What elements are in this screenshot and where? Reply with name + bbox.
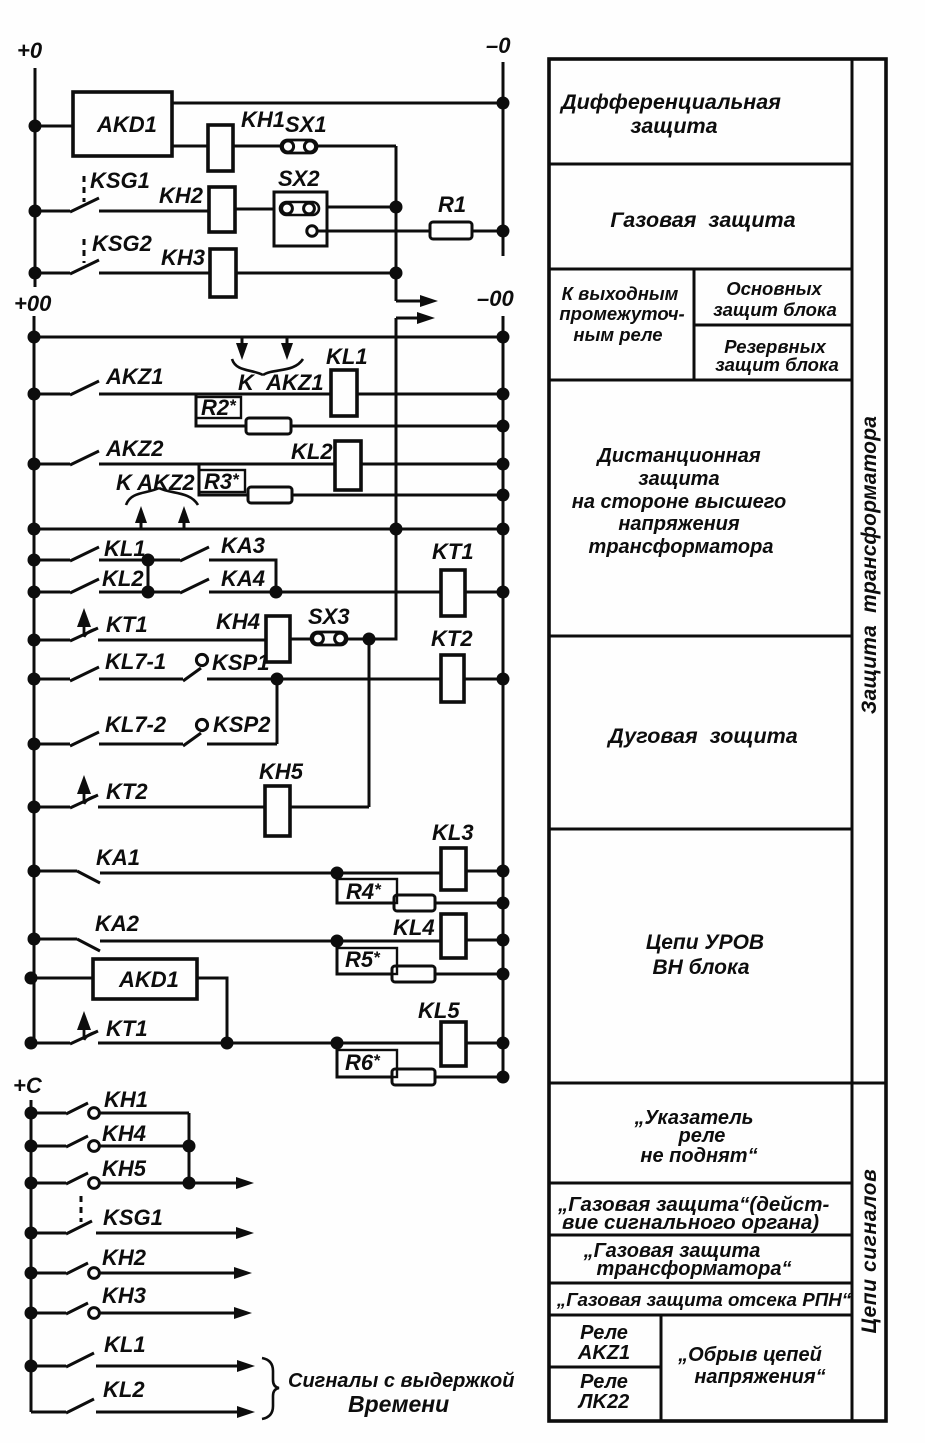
node AKD1 second on bus	[26, 973, 36, 983]
wire R5 to -00 bus	[435, 973, 503, 976]
svg-text:KH1: KH1	[241, 107, 285, 132]
wire KH3 row with KSG2 contact blade	[35, 260, 210, 274]
arrow to output relays 2	[396, 317, 421, 320]
node SX3 branch	[364, 634, 374, 644]
wire tie KH1-KH5	[188, 1113, 191, 1183]
coil KT2	[441, 655, 464, 702]
svg-text:реле: реле	[678, 1125, 726, 1147]
wire tie between KL1 and KL2 rows	[147, 560, 150, 592]
wire R6 to -00 bus end	[435, 1076, 503, 1079]
wire KSG1 signal row with blade	[31, 1221, 240, 1234]
svg-text:+C: +C	[13, 1073, 43, 1098]
node KH1 signal on bus	[26, 1108, 36, 1118]
node R4 on -00 bus	[498, 898, 508, 908]
wire lower rail to K AKZ2	[34, 528, 503, 531]
wire KT1 contact row	[34, 628, 266, 641]
wire KL1 to -00 bus	[357, 393, 503, 396]
node KT2 on -00 bus	[498, 674, 508, 684]
node SX2/SX1 junction	[391, 202, 401, 212]
wire KT2 coil to -00 bus	[464, 678, 503, 681]
time-contact symbol KT2	[84, 787, 96, 804]
label-box R6*	[337, 1050, 397, 1077]
node KT1 on -00 bus	[498, 587, 508, 597]
node tie KL1-KL2 top	[143, 555, 153, 565]
wire KT2 contact row	[34, 795, 265, 808]
arrow to output relays 1	[396, 300, 424, 303]
node KH2 row on bus	[30, 206, 40, 216]
svg-text:Основных: Основных	[726, 278, 822, 299]
svg-text:защит блока: защит блока	[715, 354, 839, 375]
coil KL1	[331, 370, 357, 416]
svg-text:R6*: R6*	[345, 1050, 381, 1075]
svg-text:KL2: KL2	[103, 1377, 145, 1402]
svg-text:AKZ2: AKZ2	[105, 436, 164, 461]
wire AKZ1 row with contact blade	[34, 381, 330, 395]
contact-circle KH3	[89, 1308, 100, 1319]
svg-text:вие сигнального органа): вие сигнального органа)	[562, 1211, 819, 1234]
node AKD1 output junction	[222, 1038, 232, 1048]
svg-text:KT1: KT1	[106, 1016, 148, 1041]
svg-text:напряжения“: напряжения“	[694, 1366, 825, 1388]
svg-text:Дистанционная: Дистанционная	[595, 445, 760, 467]
coil KL4	[441, 914, 466, 958]
node KH3 signal on bus	[26, 1308, 36, 1318]
node KL1 row on bus	[29, 555, 39, 565]
node KL2 on -00 bus	[498, 459, 508, 469]
table row line distance/arc	[549, 635, 852, 638]
node R3 on -00 bus	[498, 490, 508, 500]
coil KL5	[441, 1022, 466, 1066]
arrow down to K AKZ1 b	[286, 338, 289, 347]
wire AKD1 second output drop	[197, 978, 227, 1043]
wire KH2 row with KSG1 contact blade	[35, 198, 209, 212]
label-box R5*	[337, 948, 397, 974]
svg-text:Дифференциальная: Дифференциальная	[559, 90, 781, 114]
node R5 on -00 bus	[498, 969, 508, 979]
node KA3/KA4 join	[271, 587, 281, 597]
svg-text:KA3: KA3	[221, 533, 265, 558]
svg-text:KL2: KL2	[102, 566, 144, 591]
wire KH1 signal row with contact	[31, 1103, 189, 1114]
coil KH1	[208, 125, 233, 171]
wire SX1 to vertical node	[317, 145, 396, 148]
wire R3 to -00 bus	[292, 494, 503, 497]
svg-text:KL1: KL1	[104, 1332, 146, 1357]
svg-text:К выходным: К выходным	[562, 283, 679, 304]
arrow down to K AKZ1 a	[241, 338, 244, 347]
jumper SX3	[311, 632, 347, 645]
svg-text:промежуточ-: промежуточ-	[559, 303, 684, 324]
svg-text:KH3: KH3	[161, 245, 205, 270]
svg-text:R5*: R5*	[345, 947, 381, 972]
svg-text:ЛK22: ЛK22	[577, 1391, 629, 1413]
svg-text:R4*: R4*	[346, 879, 382, 904]
arrowhead KSG1 signal	[236, 1227, 254, 1239]
svg-text:KH1: KH1	[104, 1087, 148, 1112]
brace over arrows K AKZ2	[126, 488, 198, 505]
node rail right	[498, 332, 508, 342]
wire KH4 to SX3	[290, 638, 311, 641]
arrow up from rail to K AKZ2 a	[140, 520, 143, 528]
node KA2 on bus	[29, 934, 39, 944]
node on +0 bus at AKD1	[30, 121, 40, 131]
node KA2 R5 branch	[332, 936, 342, 946]
brace time-delayed signals	[262, 1358, 279, 1419]
bus +00	[33, 316, 36, 1043]
contact KSG1 (dashed actuator)	[83, 176, 86, 202]
wire KH5 signal row with contact	[31, 1173, 240, 1184]
node KL1 signal on bus	[26, 1361, 36, 1371]
svg-text:KT2: KT2	[431, 626, 473, 651]
svg-text:KSG1: KSG1	[90, 168, 150, 193]
node AKZ2 on bus	[29, 459, 39, 469]
svg-text:KSP2: KSP2	[213, 712, 271, 737]
bus -00	[502, 316, 505, 1078]
svg-text:„Обрыв цепей: „Обрыв цепей	[677, 1344, 822, 1366]
pressure-switch KSP1	[196, 654, 207, 665]
wire KL2/KA4 row with contact blades	[34, 579, 441, 593]
contact-circle KH5	[89, 1178, 100, 1189]
table row line gas/output-relays	[549, 268, 852, 271]
wire AKD1 to KH1	[172, 145, 208, 148]
node KL1 on -00 bus	[498, 389, 508, 399]
svg-text:KH5: KH5	[102, 1156, 147, 1181]
resistor R5	[392, 966, 435, 982]
svg-text:Сигналы с выдержкой: Сигналы с выдержкой	[288, 1370, 514, 1392]
svg-text:KSG1: KSG1	[103, 1205, 163, 1230]
wire KL3 to -00 bus	[466, 870, 503, 873]
svg-text:SX3: SX3	[308, 604, 350, 629]
svg-text:KSP1: KSP1	[212, 650, 269, 675]
wire KL5 to -00 bus	[466, 1042, 503, 1045]
node KSP1 tie	[272, 674, 282, 684]
arrowhead KL2 signal	[237, 1406, 255, 1418]
svg-text:K AKZ1: K AKZ1	[238, 370, 324, 395]
svg-text:R2*: R2*	[201, 395, 237, 420]
wire KH4 signal row with contact	[31, 1136, 189, 1147]
wire KH2 to SX2	[235, 208, 274, 211]
label-box R4*	[337, 879, 397, 903]
contact KSG2 (dashed actuator)	[83, 239, 86, 263]
svg-text:KH5: KH5	[259, 759, 304, 784]
wire KL2 to -00 bus	[361, 463, 503, 466]
wire bus+0 to AKD1	[35, 125, 73, 128]
node KL7-1 on bus	[29, 674, 39, 684]
wire tie KL7 rows	[276, 679, 279, 744]
coil KH5	[265, 786, 290, 836]
contact-circle KH4	[89, 1141, 100, 1152]
resistor R3	[248, 487, 292, 503]
node KL3 on -00 bus	[498, 866, 508, 876]
coil KH4	[266, 616, 290, 662]
svg-text:KL3: KL3	[432, 820, 474, 845]
arrowhead KH3 signal	[234, 1307, 252, 1319]
wire KA1 row with contact blade	[34, 871, 441, 883]
resistor R1	[430, 222, 472, 239]
node KL2 row on bus	[29, 587, 39, 597]
table row line arc/urov	[549, 828, 852, 831]
svg-text:+00: +00	[14, 291, 52, 316]
svg-text:KH3: KH3	[102, 1283, 146, 1308]
wire top rail of +00 section	[34, 336, 503, 339]
svg-text:R1: R1	[438, 192, 466, 217]
svg-text:на стороне высшего: на стороне высшего	[572, 491, 786, 513]
svg-text:Реле: Реле	[580, 1371, 628, 1393]
node KL4 on -00 bus	[498, 935, 508, 945]
wire R5 branch drop	[337, 941, 392, 974]
svg-text:KL1: KL1	[326, 344, 368, 369]
svg-text:KT1: KT1	[106, 612, 148, 637]
svg-text:KL5: KL5	[418, 998, 460, 1023]
arrowhead KH5 signal	[236, 1177, 254, 1189]
node KT1 lower on bus	[26, 1038, 36, 1048]
svg-text:KH4: KH4	[216, 609, 260, 634]
arrowhead KH2 signal	[234, 1267, 252, 1279]
node R6 on -00 bus	[498, 1072, 508, 1082]
switch-block SX2	[274, 192, 327, 246]
node R6 branch	[332, 1038, 342, 1048]
svg-text:защита: защита	[630, 114, 717, 138]
coil KT1	[441, 570, 465, 616]
wire KL1 signal row with blade	[31, 1353, 241, 1367]
svg-text:Времени: Времени	[348, 1391, 449, 1417]
node KH3 row on bus	[30, 268, 40, 278]
wire SX2 out to vertical	[327, 206, 396, 209]
svg-text:AKZ1: AKZ1	[105, 364, 163, 389]
wire vertical from SX1 down to arrow1	[395, 146, 398, 301]
node KT2 contact on bus	[29, 802, 39, 812]
wire KH1 to SX1	[233, 145, 281, 148]
svg-text:KH4: KH4	[102, 1121, 146, 1146]
wire R4 branch drop	[337, 873, 394, 903]
svg-text:Защита трансформатора: Защита трансформатора	[858, 416, 881, 714]
table row line gas-rpn	[549, 1314, 852, 1317]
bus +0	[34, 68, 37, 287]
brace under arrows K AKZ1	[232, 359, 303, 375]
svg-text:Дуговая зощита: Дуговая зощита	[606, 724, 798, 748]
node R2 on -00 bus	[498, 421, 508, 431]
wire R2 to -00 bus	[291, 425, 503, 428]
table row line urov/signals	[549, 1082, 886, 1085]
arrow up from rail to K AKZ2 b	[183, 520, 186, 528]
node tie KH4	[184, 1141, 194, 1151]
wire bus to AKD1 second	[31, 977, 93, 980]
contact KSG1 signal (dashed actuator)	[80, 1196, 83, 1222]
time-contact symbol KT1	[84, 620, 96, 637]
svg-text:KL2: KL2	[291, 439, 333, 464]
wire KA2 row with contact blade	[34, 939, 441, 951]
node KH3 vertical junction	[391, 268, 401, 278]
table row line output-relays/distance	[549, 379, 852, 382]
svg-text:SX2: SX2	[278, 166, 320, 191]
svg-text:KL7-2: KL7-2	[105, 712, 167, 737]
wire AKD1 top output to -0 bus	[172, 102, 503, 105]
wire KT1 lower contact row	[31, 1031, 441, 1044]
wire KH3 to vertical	[236, 272, 396, 275]
node KA1 on bus	[29, 866, 39, 876]
svg-text:KL4: KL4	[393, 915, 435, 940]
node lower rail left	[29, 524, 39, 534]
svg-text:Цепи УРОВ: Цепи УРОВ	[646, 931, 764, 954]
svg-text:KSG2: KSG2	[92, 231, 153, 256]
table sub vertical relays/voltage-loss	[660, 1315, 663, 1421]
wire KL4 to -00 bus	[466, 939, 503, 942]
svg-text:R3*: R3*	[204, 469, 240, 494]
contact-circle KH1	[89, 1108, 100, 1119]
wire KH3 signal row with contact	[31, 1303, 238, 1314]
node on -0 bus top	[498, 98, 508, 108]
svg-text:–0: –0	[486, 33, 511, 58]
wire R3 branch drop	[199, 464, 248, 495]
wire R2 branch drop	[196, 394, 246, 426]
table inner vertical (annotation/category divider)	[851, 59, 854, 1421]
wire KH5 to branch x369	[290, 806, 369, 809]
table row line indicator	[549, 1182, 852, 1185]
jumper SX1	[281, 140, 317, 153]
svg-text:AKD1: AKD1	[118, 967, 179, 992]
wire AKZ2 row with contact blade	[34, 451, 334, 465]
svg-text:KL1: KL1	[104, 536, 146, 561]
node KA1 R4 branch	[332, 868, 342, 878]
svg-text:защита: защита	[638, 468, 719, 490]
svg-text:трансформатора: трансформатора	[589, 536, 774, 558]
wire vertical branch x369 down to KH5 row	[368, 639, 371, 807]
svg-text:KH2: KH2	[159, 183, 204, 208]
node KH4 signal on bus	[26, 1141, 36, 1151]
svg-text:ВН блока: ВН блока	[652, 956, 749, 979]
coil KL3	[441, 848, 466, 890]
label-box R2*	[196, 397, 241, 418]
svg-text:SX1: SX1	[285, 112, 327, 137]
wire R6 branch drop	[337, 1043, 392, 1077]
node KT1 contact on bus	[29, 635, 39, 645]
arrowhead KL1 signal	[237, 1360, 255, 1372]
svg-text:KL7-1: KL7-1	[105, 649, 166, 674]
svg-text:трансформатора“: трансформатора“	[597, 1258, 792, 1280]
node AKZ1 on bus	[29, 389, 39, 399]
svg-text:AKD1: AKD1	[96, 112, 157, 137]
coil KL2	[335, 441, 361, 490]
node R1 on -0 bus	[498, 226, 508, 236]
coil KH2	[209, 187, 235, 232]
contact-circle KH2	[89, 1268, 100, 1279]
svg-text:ным реле: ным реле	[573, 324, 662, 345]
node lower rail right	[498, 524, 508, 534]
wire KT1 coil to -00 bus	[465, 591, 503, 594]
node KL5 on -00 bus	[498, 1038, 508, 1048]
table row line diff/gas	[549, 163, 852, 166]
bus -0	[502, 62, 505, 256]
svg-text:–00: –00	[477, 286, 514, 311]
wire KH2 signal row with contact	[31, 1263, 238, 1274]
resistor R4	[394, 895, 435, 911]
svg-text:защит блока: защит блока	[713, 299, 837, 320]
svg-text:KA1: KA1	[96, 845, 140, 870]
svg-text:KA2: KA2	[95, 911, 140, 936]
resistor R2	[246, 418, 291, 434]
wire KL1/KA3 row with contact blades	[34, 547, 276, 592]
wire SX2 lower contact to R1	[317, 230, 430, 233]
node tie KL1-KL2 bottom	[143, 587, 153, 597]
relay-box AKD1 second	[93, 959, 197, 999]
svg-text:KH2: KH2	[102, 1245, 147, 1270]
table outer frame	[549, 59, 886, 1421]
wire KL2 signal row with blade	[31, 1399, 241, 1413]
node rail left	[29, 332, 39, 342]
svg-text:+0: +0	[17, 38, 43, 63]
wire KL7-1 row with contact blade	[34, 667, 441, 681]
table sub vertical output-relays	[693, 269, 696, 380]
svg-text:KA4: KA4	[221, 566, 265, 591]
svg-text:Реле: Реле	[580, 1322, 628, 1344]
wire R4 to -00 bus	[435, 902, 503, 905]
wire R1 to -0 bus	[472, 230, 503, 233]
node KH2 signal on bus	[26, 1268, 36, 1278]
wire SX3 to feeder	[347, 630, 396, 639]
wire KL7-2 row with contact blade	[34, 732, 277, 746]
bus +C	[30, 1100, 33, 1412]
wire vertical feeder x396	[395, 318, 398, 639]
relay-box AKD1	[73, 92, 172, 156]
node lower rail at feeder	[391, 524, 401, 534]
table row line gas-transformer	[549, 1282, 852, 1285]
table sub line AKZ1/AKZ2	[549, 1366, 661, 1369]
table sub line main/backup	[694, 324, 852, 327]
svg-text:не поднят“: не поднят“	[640, 1145, 757, 1167]
svg-text:KT2: KT2	[106, 779, 148, 804]
time-contact symbol KT1 lower	[84, 1023, 96, 1040]
svg-text:AKZ1: AKZ1	[577, 1342, 630, 1364]
table row line gas-signal	[549, 1234, 852, 1237]
node KH5 signal on bus	[26, 1178, 36, 1188]
coil KH3	[210, 249, 236, 297]
node KL7-2 on bus	[29, 739, 39, 749]
svg-text:K AKZ2: K AKZ2	[116, 470, 195, 495]
label-box R3*	[199, 470, 245, 492]
resistor R6	[392, 1069, 435, 1085]
node KSG1 signal on bus	[26, 1228, 36, 1238]
svg-text:„Газовая защита отсека РПН“: „Газовая защита отсека РПН“	[556, 1289, 852, 1310]
svg-text:Цепи сигналов: Цепи сигналов	[858, 1169, 881, 1334]
node tie KH5	[184, 1178, 194, 1188]
svg-text:Газовая защита: Газовая защита	[610, 208, 795, 232]
pressure-switch KSP2	[196, 719, 207, 730]
svg-text:напряжения: напряжения	[618, 513, 740, 535]
svg-text:KT1: KT1	[432, 539, 474, 564]
